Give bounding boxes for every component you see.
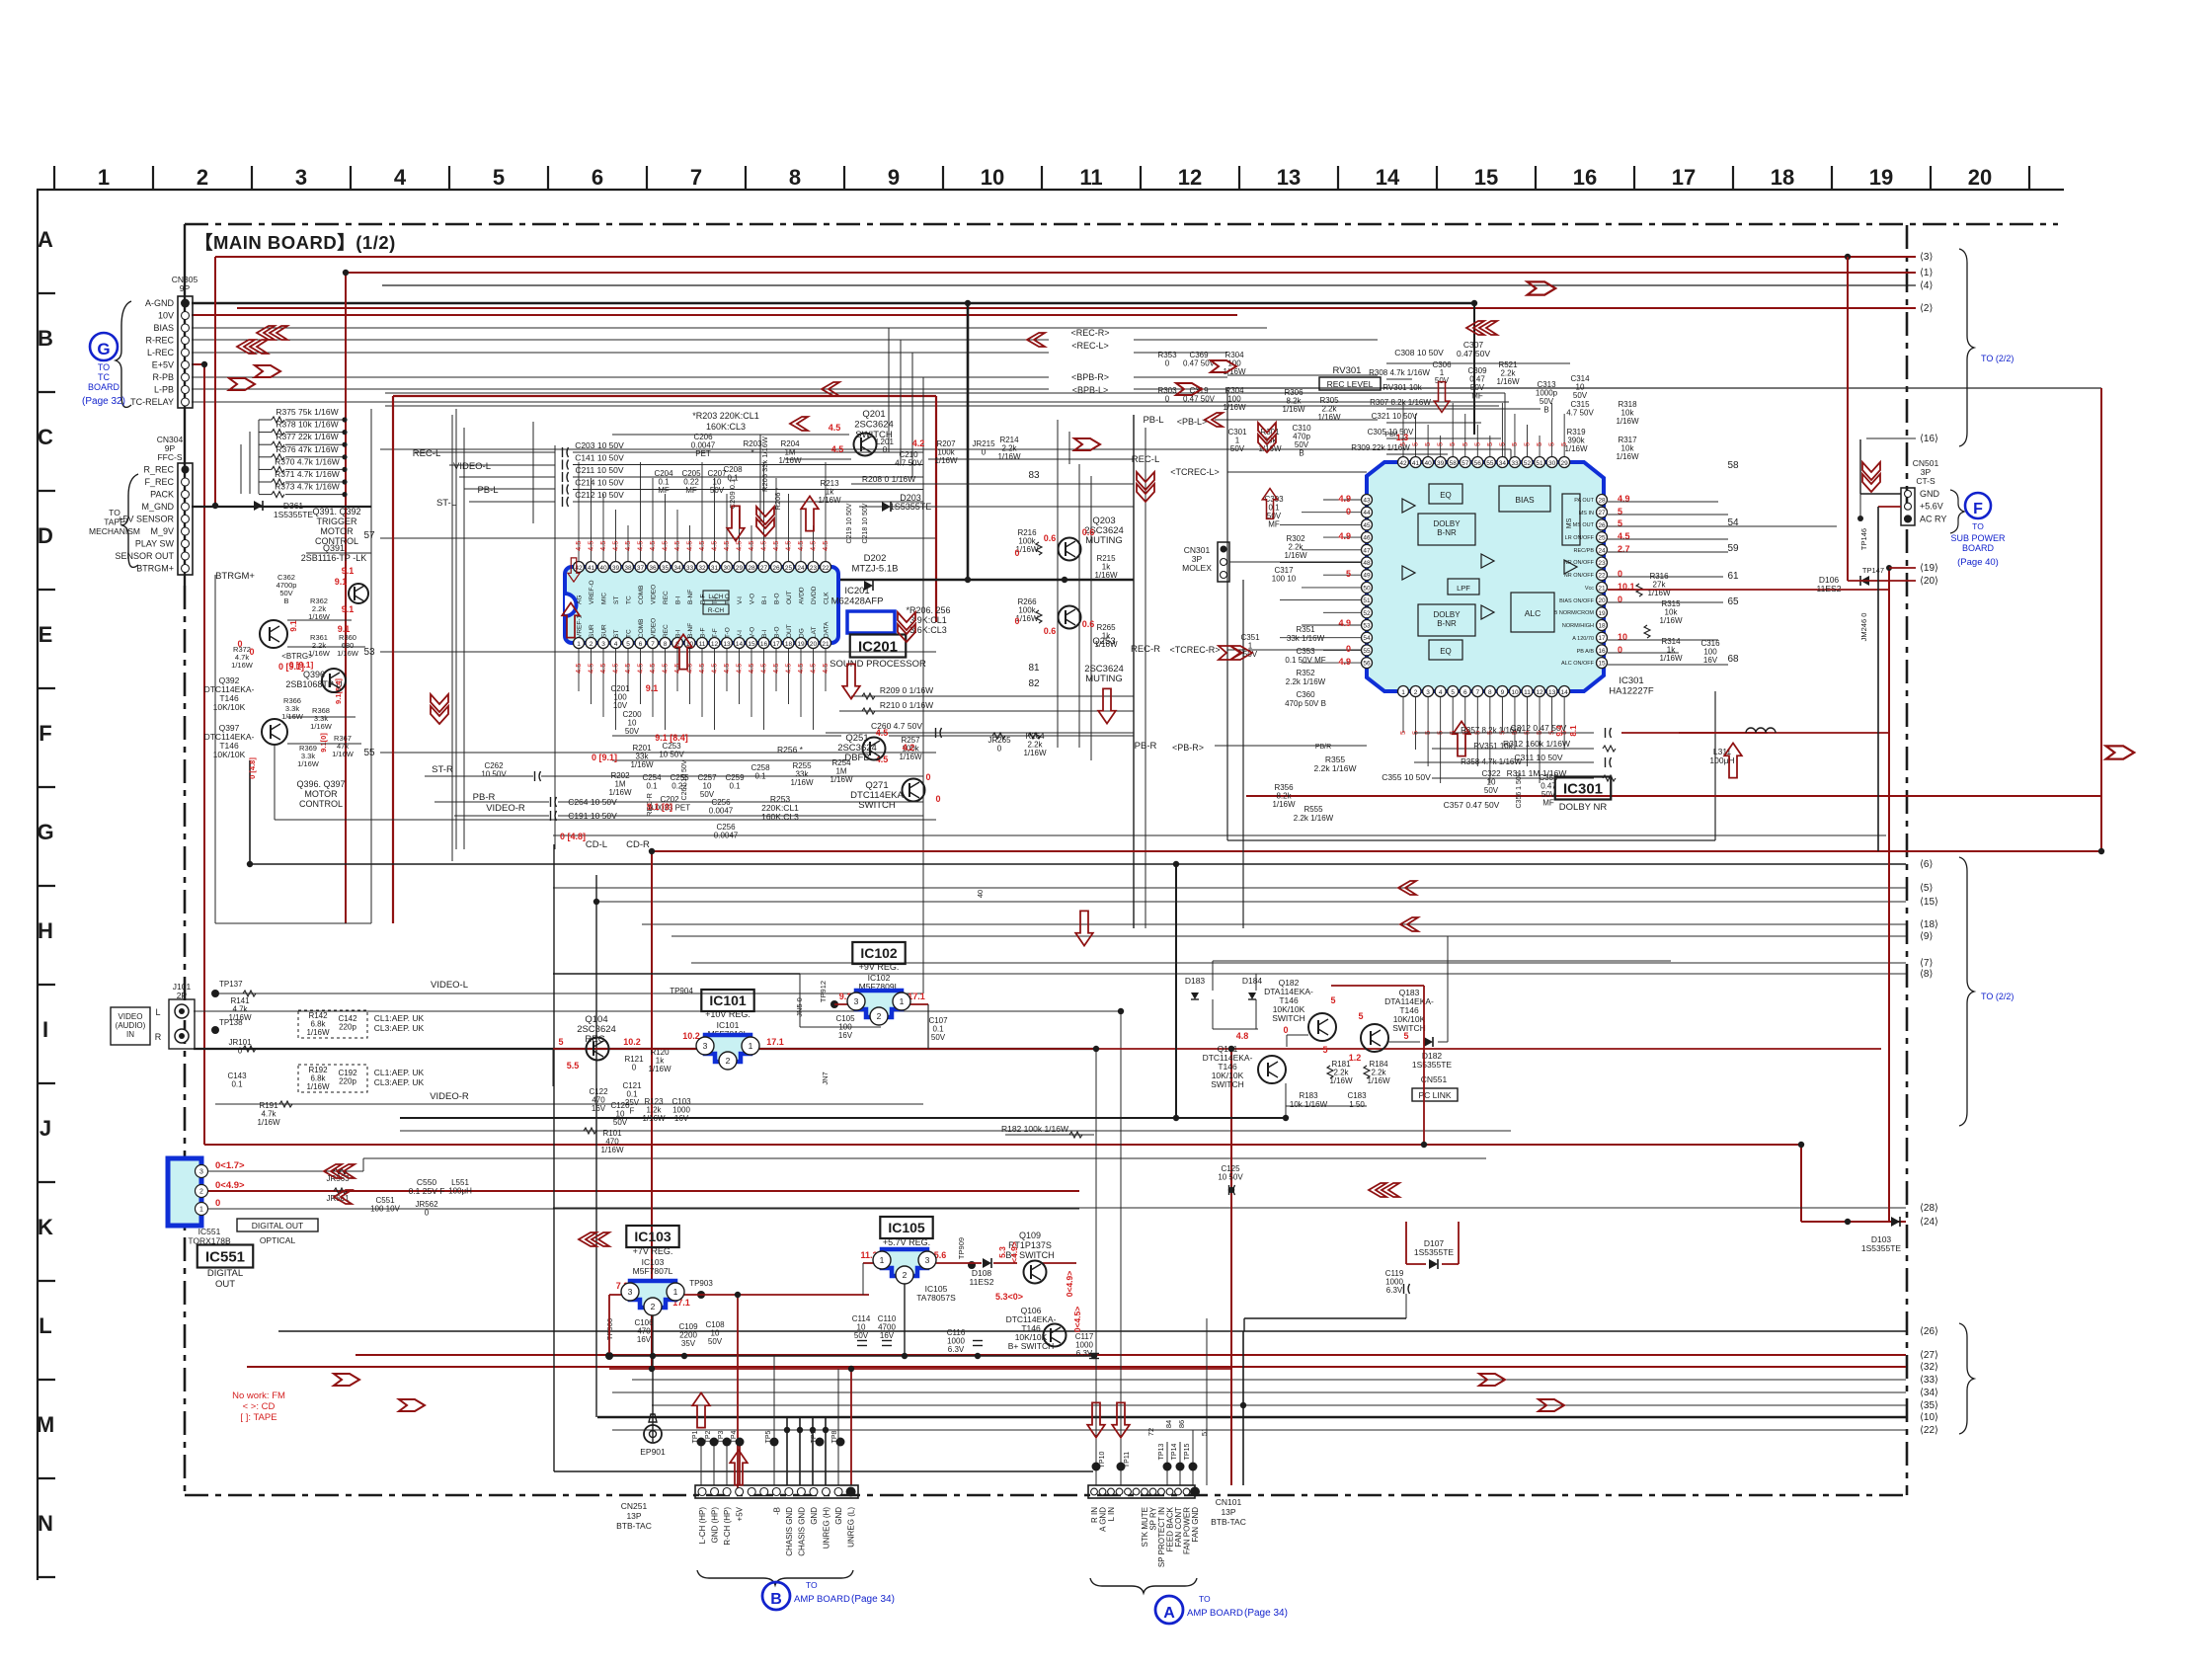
- svg-text:72: 72: [1146, 1428, 1155, 1436]
- svg-text:TP4: TP4: [731, 1430, 738, 1443]
- svg-text:M_GND: M_GND: [141, 502, 174, 512]
- svg-text:1/16W: 1/16W: [337, 649, 359, 658]
- svg-text:4.9: 4.9: [1338, 531, 1351, 541]
- transistor Q182 symbol: [1308, 1013, 1336, 1041]
- connector CN101: [1088, 1485, 1246, 1593]
- wire group middle exits 6/5/15/18/9/7/8: [250, 760, 1906, 974]
- transistor Q183 symbol: [1361, 1024, 1388, 1052]
- svg-text:1/16W: 1/16W: [1272, 800, 1296, 809]
- svg-text:OPTICAL: OPTICAL: [260, 1235, 296, 1245]
- svg-text:CT-S: CT-S: [1916, 476, 1935, 486]
- svg-text:D202: D202: [864, 553, 887, 564]
- svg-text:IC201: IC201: [844, 586, 869, 596]
- svg-text:MF: MF: [658, 486, 670, 495]
- svg-text:MIC: MIC: [601, 593, 608, 604]
- wire group bottom frames: [554, 388, 2101, 1491]
- svg-text:27: 27: [760, 565, 768, 572]
- svg-text:GND: GND: [834, 1507, 843, 1525]
- svg-text:GND: GND: [810, 1507, 819, 1525]
- svg-text:⟨8⟩: ⟨8⟩: [1920, 969, 1933, 980]
- svg-text:F_REC: F_REC: [144, 477, 174, 487]
- svg-text:R208 0 1/16W: R208 0 1/16W: [862, 474, 915, 484]
- svg-text:B-F: B-F: [700, 628, 707, 639]
- svg-text:82: 82: [1028, 678, 1040, 689]
- svg-text:5.3: 5.3: [997, 1246, 1007, 1258]
- svg-text:D184: D184: [1242, 976, 1263, 986]
- svg-text:CL1:AEP. UK: CL1:AEP. UK: [374, 1013, 425, 1023]
- svg-text:⟨26⟩: ⟨26⟩: [1920, 1326, 1938, 1337]
- svg-text:29: 29: [736, 565, 744, 572]
- svg-text:C212 10 50V: C212 10 50V: [575, 490, 624, 500]
- svg-text:9.1: 9.1: [342, 566, 355, 576]
- svg-text:5: 5: [1523, 442, 1532, 446]
- svg-text:24: 24: [1598, 547, 1606, 554]
- svg-text:RV301 10k: RV301 10k: [1382, 383, 1422, 392]
- svg-text:4.5: 4.5: [771, 541, 780, 551]
- svg-text:100 10: 100 10: [1272, 575, 1297, 584]
- svg-text:L-CH: L-CH: [708, 594, 723, 600]
- svg-text:11: 11: [1079, 165, 1102, 190]
- svg-text:EQ: EQ: [1440, 647, 1452, 656]
- svg-text:4.5: 4.5: [598, 541, 607, 551]
- svg-text:R-REC: R-REC: [146, 336, 175, 346]
- svg-text:R210 0 1/16W: R210 0 1/16W: [880, 700, 933, 710]
- svg-text:0: 0: [1165, 395, 1170, 404]
- svg-text:11ES2: 11ES2: [970, 1277, 994, 1287]
- svg-text:4.5: 4.5: [876, 728, 889, 738]
- svg-text:2SB1116-TP -LK: 2SB1116-TP -LK: [301, 553, 367, 563]
- svg-text:5: 5: [1497, 442, 1506, 446]
- svg-text:PB/R: PB/R: [1315, 744, 1331, 751]
- svg-text:57: 57: [363, 530, 375, 541]
- svg-text:33: 33: [1511, 460, 1519, 467]
- svg-text:【MAIN BOARD】(1/2): 【MAIN BOARD】(1/2): [195, 232, 396, 253]
- svg-text:BTRGM+: BTRGM+: [136, 564, 174, 574]
- svg-text:R352: R352: [1296, 669, 1315, 677]
- svg-text:4.5: 4.5: [809, 664, 818, 674]
- svg-text:1/16W: 1/16W: [332, 750, 355, 758]
- svg-text:4.5: 4.5: [735, 664, 744, 674]
- svg-text:<TCREC-R>: <TCREC-R>: [1169, 645, 1220, 655]
- svg-text:22: 22: [822, 565, 829, 572]
- svg-text:4.5: 4.5: [747, 541, 755, 551]
- board border right dash-dot: [1906, 225, 1909, 1495]
- svg-text:0: 0: [1346, 644, 1351, 654]
- svg-text:16V: 16V: [592, 1104, 606, 1113]
- svg-text:55: 55: [363, 748, 375, 758]
- svg-text:C353: C353: [1296, 647, 1315, 656]
- svg-text:1.3: 1.3: [1396, 433, 1409, 442]
- svg-text:V-I: V-I: [737, 630, 744, 638]
- 9.4 8.1 red labels under IC301: [1555, 725, 1578, 737]
- svg-text:58: 58: [1727, 460, 1739, 471]
- svg-text:4.5: 4.5: [648, 541, 657, 551]
- svg-text:<BPB-R>: <BPB-R>: [1071, 372, 1109, 382]
- svg-text:0.0047: 0.0047: [709, 807, 734, 816]
- svg-text:4.5: 4.5: [722, 541, 731, 551]
- svg-text:(Page 32): (Page 32): [82, 396, 125, 407]
- svg-text:4.5: 4.5: [697, 664, 706, 674]
- svg-text:(Page 40): (Page 40): [1957, 557, 1999, 568]
- svg-text:50V: 50V: [1484, 786, 1499, 795]
- svg-text:4.5: 4.5: [821, 541, 829, 551]
- svg-text:AVDD: AVDD: [799, 587, 806, 604]
- wire red power loop E+5V: [204, 254, 1851, 1222]
- svg-text:TO: TO: [1199, 1594, 1211, 1604]
- right exit arrows: [1920, 252, 1938, 1436]
- svg-text:34: 34: [1499, 460, 1507, 467]
- svg-text:TP11: TP11: [1124, 1452, 1131, 1468]
- svg-text:9.1: 9.1: [335, 577, 348, 587]
- svg-text:1/16W: 1/16W: [297, 759, 320, 768]
- svg-text:+7V REG.: +7V REG.: [633, 1246, 673, 1256]
- svg-text:0: 0: [935, 794, 940, 804]
- svg-text:TP3: TP3: [718, 1430, 725, 1443]
- svg-text:C321 10 50V: C321 10 50V: [1372, 412, 1418, 421]
- svg-text:0.0047: 0.0047: [714, 832, 739, 840]
- svg-text:UNREG (H): UNREG (H): [823, 1507, 831, 1549]
- svg-text:C218 10 50V: C218 10 50V: [862, 503, 869, 543]
- svg-text:ST: ST: [613, 596, 620, 604]
- svg-text:F: F: [1973, 501, 1983, 517]
- svg-text:4: 4: [394, 165, 407, 190]
- svg-text:DIGITAL OUT: DIGITAL OUT: [252, 1221, 303, 1231]
- video audio in J101: [111, 980, 243, 1049]
- svg-text:4.5: 4.5: [821, 664, 829, 674]
- svg-text:Vcc: Vcc: [1585, 586, 1594, 592]
- svg-text:CONTROL: CONTROL: [299, 799, 343, 809]
- svg-text:1/16W: 1/16W: [1616, 417, 1639, 426]
- svg-text:B-O: B-O: [774, 593, 781, 604]
- svg-text:5: 5: [1485, 442, 1494, 446]
- svg-text:TP13: TP13: [1158, 1444, 1165, 1461]
- svg-text:PLAY SW: PLAY SW: [135, 539, 175, 549]
- svg-text:C: C: [38, 425, 53, 449]
- svg-text:0.6: 0.6: [1044, 626, 1057, 636]
- svg-text:<BPB-L>: <BPB-L>: [1072, 385, 1109, 395]
- svg-text:10.2: 10.2: [682, 1031, 700, 1041]
- svg-text:1: 1: [577, 641, 581, 648]
- flag A to amp board: [1155, 1594, 1288, 1624]
- svg-text:C357 0.47 50V: C357 0.47 50V: [1444, 800, 1500, 810]
- svg-text:F: F: [630, 1107, 635, 1116]
- svg-text:D: D: [38, 523, 53, 548]
- svg-text:4.5: 4.5: [697, 541, 706, 551]
- svg-text:1/16W: 1/16W: [1659, 616, 1683, 625]
- svg-text:TO: TO: [98, 362, 110, 372]
- svg-text:Q201: Q201: [862, 409, 885, 420]
- R203 R204 cluster: [612, 409, 1134, 523]
- svg-text:4.5: 4.5: [796, 541, 805, 551]
- regulator IC102 symbol: [856, 991, 902, 1017]
- svg-text:24: 24: [797, 565, 805, 572]
- svg-text:5: 5: [1330, 995, 1335, 1005]
- red voltage annotations scatter: [237, 423, 1408, 841]
- svg-text:FAN GND: FAN GND: [1191, 1507, 1200, 1543]
- svg-text:K: K: [38, 1215, 53, 1239]
- svg-text:12: 12: [711, 641, 719, 648]
- svg-text:B: B: [38, 326, 53, 351]
- svg-text:4.5: 4.5: [722, 664, 731, 674]
- svg-text:C211 10 50V: C211 10 50V: [576, 465, 624, 475]
- svg-text:27: 27: [1598, 510, 1606, 516]
- svg-text:MF: MF: [1471, 392, 1483, 401]
- svg-text:B-NF: B-NF: [687, 590, 694, 604]
- connector CN251: [616, 1485, 858, 1585]
- svg-text:TP904: TP904: [670, 987, 693, 995]
- svg-text:⟨27⟩: ⟨27⟩: [1920, 1350, 1938, 1361]
- svg-text:⟨22⟩: ⟨22⟩: [1920, 1425, 1938, 1436]
- svg-text:2: 2: [877, 1011, 882, 1021]
- svg-text:L IN: L IN: [1107, 1507, 1116, 1522]
- svg-text:R-CH (HP): R-CH (HP): [723, 1507, 732, 1546]
- svg-text:54: 54: [1363, 635, 1371, 642]
- svg-text:⟨19⟩: ⟨19⟩: [1920, 563, 1938, 574]
- svg-text:FFC-S: FFC-S: [157, 452, 182, 462]
- svg-text:4.5: 4.5: [623, 541, 632, 551]
- svg-text:⟨10⟩: ⟨10⟩: [1920, 1412, 1938, 1423]
- svg-text:R312 160k 1/16W: R312 160k 1/16W: [1503, 739, 1570, 749]
- svg-text:ALC ON/OFF: ALC ON/OFF: [1561, 661, 1595, 667]
- svg-text:EQ: EQ: [1440, 491, 1452, 500]
- svg-text:TO (2/2): TO (2/2): [1981, 992, 2014, 1001]
- svg-text:*R206. 256: *R206. 256: [906, 605, 950, 615]
- svg-text:18: 18: [1598, 623, 1606, 630]
- svg-text:R183: R183: [1299, 1091, 1318, 1100]
- svg-text:MUTING: MUTING: [1085, 674, 1122, 684]
- svg-text:MTZJ-5.1B: MTZJ-5.1B: [852, 564, 899, 575]
- svg-text:MF: MF: [685, 486, 697, 495]
- note no work legend: [232, 1390, 285, 1423]
- svg-text:5.3<0>: 5.3<0>: [995, 1292, 1023, 1302]
- svg-text:13: 13: [1548, 689, 1556, 696]
- svg-text:0.1 25V F: 0.1 25V F: [409, 1186, 445, 1196]
- svg-text:6.3V: 6.3V: [1386, 1286, 1403, 1295]
- svg-text:PB-L: PB-L: [1143, 415, 1163, 426]
- svg-text:5.5: 5.5: [567, 1061, 580, 1071]
- svg-text:5: 5: [1398, 731, 1407, 735]
- svg-text:⟨18⟩: ⟨18⟩: [1920, 919, 1938, 930]
- svg-text:VIDEO: VIDEO: [651, 585, 658, 604]
- svg-text:R182 100k 1/16W: R182 100k 1/16W: [1001, 1124, 1068, 1134]
- svg-text:1/16W: 1/16W: [778, 456, 802, 465]
- transistor Q109: [1024, 1261, 1047, 1284]
- svg-text:13P: 13P: [1221, 1507, 1235, 1517]
- svg-text:51: 51: [1200, 1428, 1209, 1436]
- svg-text:TP903: TP903: [689, 1279, 713, 1288]
- svg-text:SOUND PROCESSOR: SOUND PROCESSOR: [829, 659, 926, 670]
- svg-text:0: 0: [1014, 548, 1019, 558]
- svg-text:26: 26: [1598, 522, 1606, 529]
- svg-text:⟨6⟩: ⟨6⟩: [1920, 859, 1933, 870]
- svg-text:4.7 50V: 4.7 50V: [1566, 409, 1594, 418]
- svg-text:F: F: [39, 721, 51, 746]
- svg-text:MS IN: MS IN: [1579, 511, 1594, 516]
- svg-text:5: 5: [493, 165, 505, 190]
- svg-text:MS OUT: MS OUT: [1573, 522, 1595, 528]
- ruler left scale A-N: [37, 190, 55, 1580]
- transistor Q201: [854, 434, 877, 456]
- svg-text:41: 41: [1412, 460, 1420, 467]
- svg-text:1/16W: 1/16W: [257, 1118, 280, 1127]
- svg-text:56: 56: [1363, 661, 1371, 668]
- wire dark red frame around IC201 block: [393, 396, 936, 923]
- resistor ladder R375-R373: [241, 407, 348, 498]
- svg-text:L: L: [155, 1007, 160, 1017]
- svg-text:TP2: TP2: [705, 1430, 712, 1443]
- connector CN301 molex: [1182, 542, 1367, 582]
- svg-text:1/16W: 1/16W: [790, 778, 814, 787]
- svg-text:31: 31: [711, 565, 719, 572]
- svg-text:REC-L: REC-L: [413, 448, 441, 459]
- board border left solid: [184, 224, 186, 586]
- svg-text:VIDEO: VIDEO: [651, 618, 658, 638]
- svg-text:T-O: T-O: [725, 627, 732, 638]
- svg-text:2P: 2P: [177, 991, 188, 1000]
- transistor Q181 symbol: [1258, 1056, 1286, 1083]
- svg-text:4.5: 4.5: [661, 664, 670, 674]
- svg-text:5: 5: [1358, 1011, 1363, 1021]
- svg-text:GND (HP): GND (HP): [711, 1507, 720, 1544]
- svg-text:1/16W: 1/16W: [1659, 654, 1683, 663]
- EP901 ground lug: [640, 1414, 666, 1457]
- svg-text:5: 5: [1559, 442, 1568, 446]
- svg-text:1/16W: 1/16W: [306, 1082, 330, 1091]
- svg-text:R209 0 1/16W: R209 0 1/16W: [880, 685, 933, 695]
- svg-text:50V: 50V: [700, 790, 715, 799]
- transistor Q251: [863, 738, 886, 760]
- svg-text:2: 2: [651, 1302, 656, 1311]
- svg-text:15: 15: [1598, 661, 1606, 668]
- svg-text:-B: -B: [772, 1507, 781, 1515]
- svg-text:4.5: 4.5: [636, 541, 645, 551]
- svg-text:ST-R: ST-R: [432, 764, 453, 775]
- svg-text:⟨9⟩: ⟨9⟩: [1920, 931, 1933, 942]
- svg-text:19: 19: [1598, 610, 1606, 617]
- svg-text:1: 1: [1401, 689, 1405, 696]
- svg-text:M62428AFP: M62428AFP: [831, 596, 884, 607]
- svg-text:TP1: TP1: [692, 1430, 699, 1443]
- svg-text:8: 8: [1488, 689, 1492, 696]
- C312 R312 C311 R311 rows under IC301: [1414, 723, 1889, 781]
- svg-text:86: 86: [1177, 1420, 1186, 1428]
- svg-text:4.5: 4.5: [587, 664, 595, 674]
- svg-text:3: 3: [925, 1255, 930, 1265]
- svg-text:LAT: LAT: [811, 627, 818, 638]
- svg-text:9P: 9P: [180, 283, 191, 293]
- svg-text:0: 0: [925, 772, 930, 782]
- svg-text:0 [4.8]: 0 [4.8]: [560, 832, 586, 841]
- op-amp IC201 sound processor: [565, 462, 838, 730]
- svg-text:14: 14: [1376, 165, 1400, 190]
- svg-text:10: 10: [1511, 689, 1519, 696]
- svg-text:16: 16: [760, 641, 768, 648]
- svg-text:R311 1M 1/16W: R311 1M 1/16W: [1507, 768, 1567, 778]
- R141 R142 filter cluster: [227, 980, 468, 1127]
- svg-text:B-I: B-I: [675, 596, 682, 605]
- svg-text:VREF-O: VREF-O: [589, 580, 595, 604]
- svg-text:SUR: SUR: [601, 624, 608, 638]
- svg-text:CHASIS GND: CHASIS GND: [797, 1507, 806, 1556]
- svg-text:BOARD: BOARD: [88, 382, 120, 392]
- svg-text:AC RY: AC RY: [1920, 514, 1946, 523]
- wire group D107 loop: [1244, 1222, 1459, 1331]
- svg-text:1/16W: 1/16W: [310, 722, 333, 731]
- svg-text:MOLEX: MOLEX: [1182, 563, 1212, 573]
- svg-text:220p: 220p: [339, 1023, 356, 1032]
- svg-text:0: 0: [997, 745, 1002, 754]
- svg-text:0.1: 0.1: [729, 782, 741, 791]
- svg-text:13P: 13P: [626, 1511, 641, 1521]
- svg-text:2SC3624: 2SC3624: [854, 420, 894, 431]
- svg-text:PB A/B: PB A/B: [1577, 649, 1595, 655]
- svg-text:DIGITAL: DIGITAL: [207, 1268, 243, 1279]
- board border top dash-dot: [185, 223, 2058, 226]
- svg-text:50V: 50V: [854, 1331, 869, 1340]
- transistor Q253: [1059, 606, 1081, 629]
- svg-text:44: 44: [1363, 510, 1371, 516]
- svg-text:11: 11: [1524, 689, 1531, 696]
- svg-text:160K:CL3: 160K:CL3: [706, 422, 746, 432]
- svg-text:VIDEO-R: VIDEO-R: [486, 803, 525, 814]
- svg-text:REC/PB: REC/PB: [1574, 548, 1595, 554]
- svg-text:4.5: 4.5: [747, 664, 755, 674]
- svg-text:MF: MF: [1542, 799, 1554, 808]
- svg-text:4.5: 4.5: [831, 444, 844, 454]
- svg-text:50V: 50V: [613, 1118, 628, 1127]
- svg-text:21: 21: [1598, 585, 1606, 592]
- svg-text:1: 1: [98, 165, 110, 190]
- svg-text:+9V REG.: +9V REG.: [859, 962, 900, 972]
- svg-text:16V: 16V: [1703, 656, 1718, 665]
- svg-text:EP901: EP901: [640, 1447, 666, 1457]
- svg-text:+10V REG.: +10V REG.: [705, 1009, 750, 1019]
- svg-text:16V: 16V: [880, 1331, 895, 1340]
- svg-text:8.1: 8.1: [1569, 725, 1578, 737]
- svg-text:*: *: [750, 448, 753, 457]
- svg-text:M: M: [37, 1412, 54, 1437]
- svg-text:R371 4.7k 1/16W: R371 4.7k 1/16W: [275, 469, 340, 479]
- svg-text:4.5: 4.5: [611, 541, 620, 551]
- svg-text:TP146: TP146: [1859, 528, 1868, 550]
- svg-text:B-O: B-O: [774, 626, 781, 638]
- svg-text:3: 3: [854, 996, 859, 1006]
- svg-text:3: 3: [628, 1287, 633, 1297]
- ruler top scale 1-20: [37, 165, 2064, 190]
- svg-text:BTB-TAC: BTB-TAC: [1211, 1517, 1246, 1527]
- svg-text:1: 1: [199, 1207, 203, 1214]
- DBFB cluster Q251 Q271: [612, 728, 1134, 822]
- svg-text:83: 83: [1028, 470, 1040, 481]
- label IC201: [826, 503, 1134, 738]
- svg-text:2: 2: [903, 1270, 908, 1280]
- svg-text:3: 3: [601, 641, 605, 648]
- svg-text:0: 0: [238, 1047, 243, 1056]
- svg-text:⟨1⟩: ⟨1⟩: [1920, 268, 1933, 278]
- svg-text:1/16W: 1/16W: [1094, 571, 1118, 580]
- svg-text:+5.7V REG.: +5.7V REG.: [883, 1237, 930, 1247]
- svg-text:28: 28: [1598, 498, 1606, 505]
- svg-text:⟨7⟩: ⟨7⟩: [1920, 958, 1933, 969]
- svg-text:G: G: [97, 340, 110, 358]
- svg-text:52: 52: [1363, 610, 1371, 617]
- label IC301: [1555, 460, 1739, 813]
- svg-text:5: 5: [1535, 442, 1543, 446]
- svg-text:6: 6: [592, 165, 603, 190]
- svg-text:18: 18: [1771, 165, 1794, 190]
- transistor Q104 symbol: [587, 1038, 609, 1061]
- svg-text:40: 40: [599, 565, 607, 572]
